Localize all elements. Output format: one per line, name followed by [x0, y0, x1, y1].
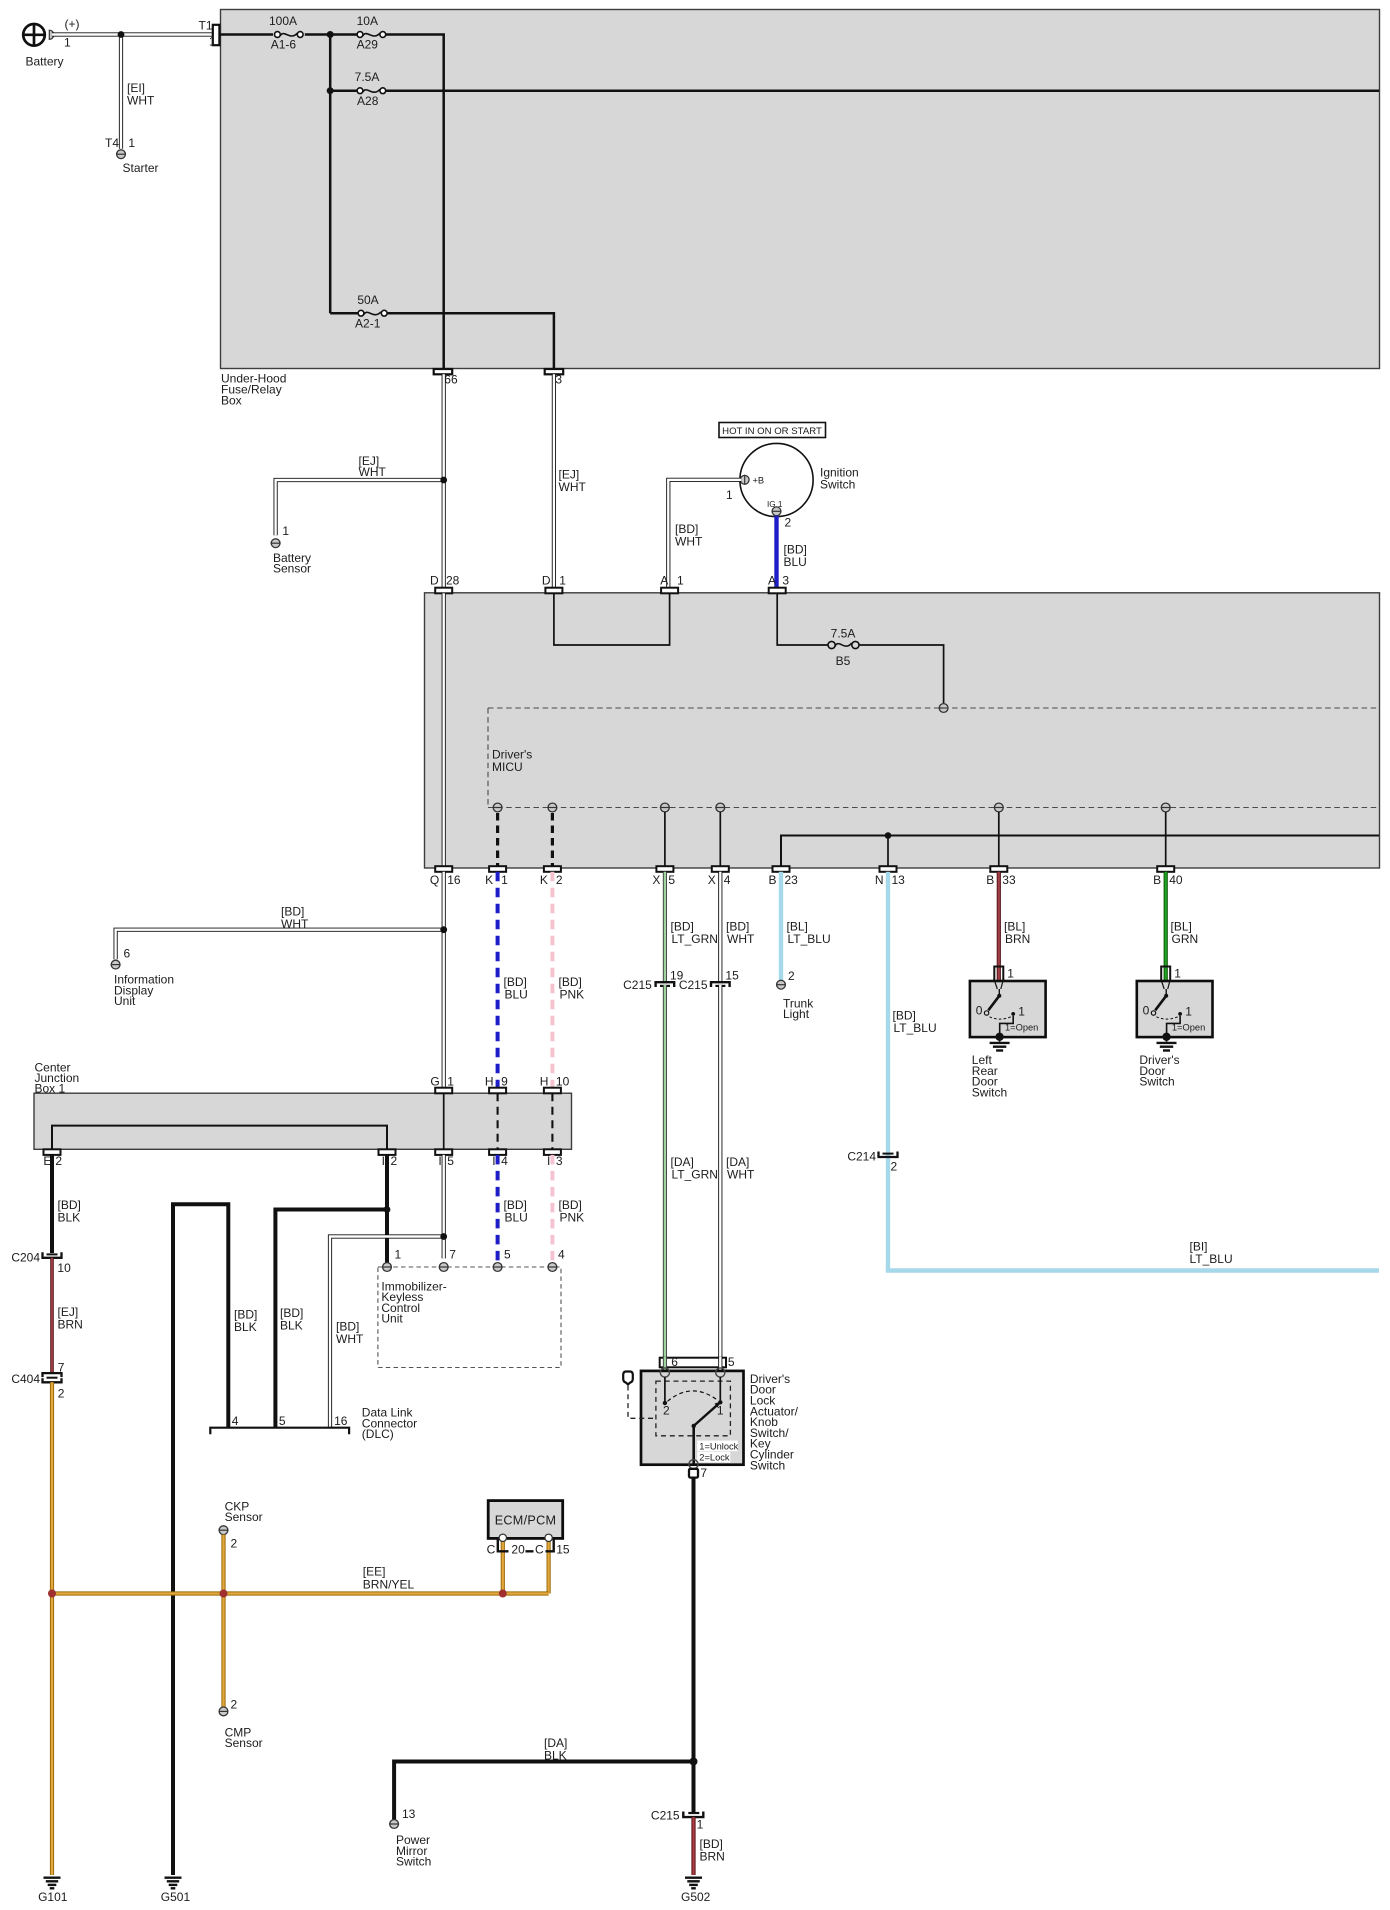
svg-text:ECM/PCM: ECM/PCM	[495, 1514, 557, 1528]
wire label [EI] WHT	[127, 81, 155, 107]
ground driver's door switch	[1139, 1037, 1179, 1089]
svg-text:I: I	[438, 1154, 441, 1168]
svg-text:BLK: BLK	[280, 1318, 303, 1332]
connector C214	[847, 1150, 897, 1174]
svg-text:LT_GRN: LT_GRN	[672, 932, 718, 946]
svg-text:2: 2	[55, 1154, 62, 1168]
fuse 10A A29	[357, 14, 386, 52]
wire branch to battery sensor	[276, 480, 444, 535]
wire H10 to I3 internal dashed	[551, 1093, 553, 1149]
svg-text:BLK: BLK	[58, 1210, 81, 1224]
terminal 66	[434, 369, 458, 386]
wire label [BD] WHT info	[281, 905, 309, 931]
svg-text:C404: C404	[11, 1372, 40, 1386]
svg-text:1: 1	[64, 36, 71, 50]
svg-text:Sensor: Sensor	[225, 1510, 263, 1524]
information display unit pin 6	[111, 947, 174, 1009]
svg-text:5: 5	[668, 873, 675, 887]
wire ignition +B to A1	[668, 480, 741, 588]
wire label [DA] LT_GRN	[671, 1155, 718, 1181]
junction orange left	[48, 1590, 56, 1598]
svg-text:10A: 10A	[357, 14, 378, 28]
svg-text:1: 1	[1018, 1005, 1025, 1019]
svg-text:BLU: BLU	[784, 555, 807, 569]
terminal 3	[545, 369, 564, 386]
svg-text:Switch: Switch	[396, 1855, 431, 1869]
connector C215 bottom	[651, 1809, 704, 1832]
svg-text:2: 2	[391, 1154, 398, 1168]
svg-text:40: 40	[1169, 873, 1183, 887]
svg-text:1: 1	[1174, 967, 1181, 981]
wire label [BL] GRN	[1171, 920, 1199, 946]
wire K1 internal dashed	[496, 813, 499, 866]
svg-text:BLK: BLK	[544, 1748, 567, 1762]
wire label [BL] BRN	[1004, 920, 1030, 946]
svg-text:WHT: WHT	[359, 465, 387, 479]
wire B5 to MICU pin	[859, 645, 944, 703]
junction I5 branch	[440, 1233, 447, 1240]
svg-text:LT_BLU: LT_BLU	[894, 1021, 937, 1035]
wire label [BD] BLU	[504, 975, 528, 1001]
svg-text:T1: T1	[198, 19, 212, 33]
driver's MICU box	[425, 593, 1380, 868]
svg-text:2: 2	[785, 516, 792, 530]
svg-text:7: 7	[58, 1361, 65, 1375]
wire C404 to G101 orange	[50, 1382, 54, 1875]
immobilizer pin 1	[382, 1247, 402, 1271]
junction N13	[885, 832, 892, 839]
svg-text:Switch: Switch	[1139, 1075, 1174, 1089]
svg-text:0: 0	[976, 1004, 983, 1018]
wire 10A to terminal 66	[386, 35, 444, 370]
svg-text:15: 15	[556, 1543, 570, 1557]
svg-text:C214: C214	[847, 1150, 876, 1164]
wire door lock 7 to C215 black	[692, 1477, 696, 1813]
svg-text:6: 6	[671, 1355, 678, 1369]
wire label [DA] BLK	[544, 1736, 567, 1762]
terminal H9	[485, 1074, 508, 1093]
wire CKP to CMP orange	[221, 1535, 225, 1707]
MICU pin X5	[660, 803, 670, 812]
wire ignition IG1 to A3 blue	[774, 516, 778, 588]
svg-text:3: 3	[555, 372, 562, 386]
svg-text:G: G	[430, 1074, 439, 1088]
svg-text:A: A	[660, 573, 668, 587]
terminal G1	[430, 1074, 454, 1093]
svg-text:Switch: Switch	[820, 477, 855, 491]
svg-text:A: A	[768, 573, 776, 587]
terminal H10	[540, 1074, 570, 1093]
wire label [BD] BLU A3	[784, 543, 807, 569]
wire branch to information display unit	[116, 930, 444, 960]
wire branch to power mirror switch	[394, 1762, 693, 1820]
svg-text:0: 0	[1143, 1004, 1150, 1018]
svg-text:100A: 100A	[269, 14, 297, 28]
ECM/PCM	[488, 1501, 563, 1539]
svg-text:1: 1	[395, 1247, 402, 1261]
svg-text:Switch: Switch	[750, 1458, 785, 1472]
ground left rear door switch	[972, 1037, 1010, 1099]
terminal K2	[540, 866, 563, 887]
fuse 100A A1-6	[269, 14, 303, 52]
wire B33 maroon	[997, 872, 1001, 988]
svg-text:16: 16	[447, 873, 461, 887]
svg-text:BLK: BLK	[234, 1320, 257, 1334]
svg-text:WHT: WHT	[675, 534, 703, 548]
door lock pin 5	[716, 1368, 725, 1377]
wire label [EJ] WHT battery sensor	[359, 454, 387, 479]
wire X5 internal	[664, 812, 666, 866]
door lock pin 7	[689, 1460, 708, 1480]
svg-text:5: 5	[279, 1414, 286, 1428]
junction DA BLK	[690, 1758, 698, 1766]
svg-text:C215: C215	[623, 978, 652, 992]
wire label [BD] WHT dlc16	[336, 1320, 364, 1346]
wire I5 to immobilizer pin 7	[442, 1155, 446, 1259]
terminal B23	[768, 866, 798, 887]
svg-text:BRN/YEL: BRN/YEL	[363, 1578, 415, 1592]
fuse 7.5A A28	[355, 70, 386, 108]
svg-text:1=Open: 1=Open	[1005, 1022, 1038, 1032]
immobilizer pin 4	[547, 1247, 565, 1271]
svg-text:5: 5	[504, 1247, 511, 1261]
wire label [BD] BLK dlc5	[234, 1308, 257, 1334]
wire D1 to A1 internal	[554, 593, 670, 645]
svg-text:B5: B5	[836, 654, 851, 668]
connector C204	[11, 1251, 71, 1275]
svg-text:1: 1	[559, 573, 566, 587]
wire junction to starter	[119, 35, 123, 149]
svg-text:I: I	[547, 1154, 550, 1168]
wire X5 C215 to door lock lt green	[663, 985, 667, 1373]
svg-text:+B: +B	[753, 476, 765, 486]
svg-text:16: 16	[334, 1414, 348, 1428]
ECM connector bracket	[487, 1540, 570, 1557]
door lock connector bar 6/5	[660, 1355, 735, 1372]
svg-text:9: 9	[501, 1074, 508, 1088]
svg-text:Unit: Unit	[114, 994, 136, 1008]
svg-text:PNK: PNK	[560, 987, 585, 1001]
svg-text:7: 7	[700, 1466, 707, 1480]
svg-text:Q: Q	[430, 873, 439, 887]
terminal I5	[435, 1149, 454, 1168]
wire B40 green	[1164, 872, 1168, 988]
svg-text:1: 1	[282, 524, 289, 538]
wire label [EJ] BRN	[58, 1305, 83, 1332]
terminal B33	[986, 866, 1016, 887]
wire label [BD] LT_GRN	[671, 920, 718, 946]
junction 7.5A row	[327, 87, 334, 94]
CKP sensor pin 2	[219, 1500, 263, 1551]
wire X4 C215 to door lock white	[718, 985, 722, 1373]
data link connector DLC	[210, 1406, 417, 1441]
svg-text:13: 13	[892, 873, 906, 887]
svg-text:1: 1	[677, 573, 684, 587]
connector T1	[198, 19, 219, 49]
terminal I3	[544, 1149, 563, 1168]
svg-text:WHT: WHT	[727, 932, 755, 946]
battery	[22, 17, 79, 69]
wire label [BD] BRN	[700, 1837, 725, 1863]
svg-text:Battery: Battery	[26, 55, 64, 69]
connector C404	[11, 1361, 64, 1401]
wire X5 to C215 lt green	[663, 872, 667, 984]
svg-text:WHT: WHT	[127, 93, 155, 107]
svg-text:A1-6: A1-6	[271, 38, 297, 52]
svg-text:23: 23	[785, 873, 799, 887]
svg-text:7: 7	[449, 1247, 456, 1261]
wire K2 internal dashed	[551, 813, 554, 866]
wire battery to T1	[52, 32, 213, 36]
power mirror switch pin 13	[389, 1807, 431, 1869]
svg-text:LT_BLU: LT_BLU	[1190, 1252, 1233, 1266]
trunk light pin 2	[776, 969, 814, 1021]
wire I4 to immobilizer pin 5 blue dashed	[496, 1155, 500, 1263]
terminal I2	[379, 1149, 398, 1168]
terminal I4	[489, 1149, 508, 1168]
svg-text:Starter: Starter	[123, 161, 159, 175]
terminal D1	[542, 573, 566, 593]
svg-text:Light: Light	[783, 1007, 810, 1021]
wire label [EE] BRN/YEL	[363, 1565, 415, 1592]
svg-text:BRN: BRN	[58, 1318, 83, 1332]
wire label [DA] WHT	[726, 1155, 755, 1181]
wire K2 to H10 pink dashed	[550, 872, 554, 1088]
junction A row	[327, 31, 334, 38]
terminal A3	[768, 573, 789, 593]
wire label [EJ] WHT D1	[559, 468, 587, 494]
svg-text:H: H	[540, 1074, 549, 1088]
svg-text:13: 13	[402, 1807, 416, 1821]
wire 50A to terminal 3	[387, 313, 554, 369]
svg-text:28: 28	[446, 573, 460, 587]
svg-text:BRN: BRN	[1005, 932, 1030, 946]
wire E2 to C204 black	[50, 1155, 54, 1253]
svg-text:N: N	[875, 873, 884, 887]
svg-text:3: 3	[556, 1154, 563, 1168]
HOT IN ON OR START banner	[719, 423, 826, 438]
wire label [BD] LT_BLU	[893, 1009, 937, 1035]
svg-text:D: D	[542, 573, 551, 587]
wire label [BD] BLK E2	[58, 1198, 81, 1224]
ground G501	[161, 1878, 191, 1904]
svg-text:D: D	[430, 573, 439, 587]
wire 3 to D1	[552, 374, 556, 587]
wire label [BL] LT_BLU	[787, 920, 831, 946]
svg-text:C215: C215	[651, 1809, 680, 1823]
svg-text:2=Lock: 2=Lock	[699, 1453, 730, 1463]
svg-text:1: 1	[501, 873, 508, 887]
wire internal bus B23/N13	[781, 836, 1379, 867]
svg-text:K: K	[485, 873, 493, 887]
wire B23 to trunk light lt blue	[779, 872, 783, 981]
immobilizer pin 5	[493, 1247, 511, 1271]
wire B33 internal	[998, 812, 1000, 866]
junction battery sensor branch	[440, 477, 447, 484]
ground G101	[38, 1878, 68, 1904]
svg-text:2: 2	[788, 969, 795, 983]
svg-text:G501: G501	[161, 1890, 191, 1904]
svg-text:A28: A28	[357, 94, 379, 108]
driver's door lock actuator box	[641, 1371, 799, 1472]
svg-text:6: 6	[124, 947, 131, 961]
junction orange C20	[499, 1590, 507, 1598]
wire H9 to I4 internal dashed	[497, 1093, 499, 1149]
ground G502	[681, 1878, 711, 1904]
svg-text:3: 3	[782, 573, 789, 587]
svg-text:1=Unlock: 1=Unlock	[699, 1441, 738, 1451]
wire C204 to C404 maroon	[50, 1258, 54, 1373]
ECM pin C20	[499, 1534, 506, 1541]
connector C215 pin19	[623, 968, 684, 992]
wire label [BD] PNK lower	[559, 1198, 585, 1224]
svg-text:Switch: Switch	[972, 1085, 1007, 1099]
svg-text:1=Open: 1=Open	[1172, 1022, 1205, 1032]
svg-text:C: C	[487, 1543, 496, 1557]
wire C215 to G502 maroon	[691, 1817, 695, 1875]
svg-text:2: 2	[556, 873, 563, 887]
svg-text:10: 10	[556, 1074, 570, 1088]
svg-text:HOT IN ON OR START: HOT IN ON OR START	[722, 426, 822, 437]
svg-text:C204: C204	[11, 1251, 40, 1265]
svg-text:BLU: BLU	[505, 1210, 528, 1224]
terminal D28	[430, 573, 460, 593]
svg-text:5: 5	[728, 1355, 735, 1369]
svg-text:2: 2	[58, 1387, 65, 1401]
wire ECM C15 orange	[546, 1541, 550, 1594]
wire I2 to immobilizer pin 1 black	[385, 1155, 389, 1263]
wire T1 to fuse 100A	[220, 33, 273, 36]
wire N13 internal	[887, 836, 889, 867]
junction orange CKP	[220, 1590, 228, 1598]
wire E2 to I2 internal	[52, 1126, 387, 1150]
wire junction to 50A fuse	[330, 312, 358, 315]
MICU pin K1	[493, 803, 503, 812]
svg-text:2: 2	[663, 1403, 670, 1417]
svg-text:C: C	[535, 1543, 544, 1557]
svg-text:I: I	[382, 1154, 385, 1168]
svg-text:Box 1: Box 1	[35, 1081, 66, 1095]
svg-text:1: 1	[1185, 1005, 1192, 1019]
left rear door switch	[970, 967, 1046, 1042]
svg-text:7.5A: 7.5A	[831, 627, 856, 641]
svg-text:BLU: BLU	[505, 987, 528, 1001]
svg-text:X: X	[708, 873, 716, 887]
svg-text:Box: Box	[221, 393, 242, 407]
wire 66 to D28	[442, 374, 446, 587]
wire G1 to I5 internal	[443, 1093, 445, 1149]
svg-text:WHT: WHT	[336, 1332, 364, 1346]
door lock switch internals	[663, 1377, 739, 1465]
svg-text:Sensor: Sensor	[273, 562, 311, 576]
wire X4 to C215 white	[718, 872, 722, 984]
ECM pin C15	[545, 1534, 552, 1541]
wire label [BI] LT_BLU	[1190, 1240, 1233, 1266]
svg-text:1: 1	[726, 488, 733, 502]
svg-text:LT_BLU: LT_BLU	[788, 932, 831, 946]
svg-text:I: I	[492, 1154, 495, 1168]
MICU internal pin top	[939, 704, 949, 713]
wire Q16 to G1	[442, 872, 446, 1088]
MICU pin K2	[547, 803, 557, 812]
wire branch I2 to DLC 5	[275, 1210, 387, 1428]
wire junction down	[329, 35, 332, 314]
svg-text:A29: A29	[357, 38, 379, 52]
svg-text:2: 2	[891, 1159, 898, 1173]
svg-text:4: 4	[232, 1414, 239, 1428]
svg-text:Sensor: Sensor	[225, 1736, 263, 1750]
wire B40 internal	[1165, 812, 1167, 866]
terminal B40	[1153, 866, 1183, 887]
fuse 7.5A B5	[828, 627, 859, 669]
svg-text:H: H	[485, 1074, 494, 1088]
wire A3 to fuse B5	[777, 593, 828, 645]
svg-text:1: 1	[1007, 967, 1014, 981]
svg-text:[EE]: [EE]	[363, 1565, 386, 1579]
MICU pin X4	[715, 803, 725, 812]
svg-text:7.5A: 7.5A	[355, 70, 380, 84]
svg-text:Unit: Unit	[381, 1312, 403, 1326]
svg-text:WHT: WHT	[559, 480, 587, 494]
center junction box 1	[34, 1061, 572, 1150]
wire X4 internal	[719, 812, 721, 866]
terminal A1	[660, 573, 684, 593]
svg-text:A2-1: A2-1	[355, 317, 381, 331]
svg-text:BRN: BRN	[700, 1849, 725, 1863]
door lock internal dashed box	[656, 1381, 731, 1436]
wire fuse 100A to junction	[305, 33, 358, 36]
junction info display branch	[440, 926, 447, 933]
svg-text:1: 1	[447, 1074, 454, 1088]
svg-text:X: X	[652, 873, 660, 887]
svg-text:33: 33	[1002, 873, 1016, 887]
svg-text:G101: G101	[38, 1890, 68, 1904]
wire D28 to Q16 internal	[442, 593, 446, 866]
wire label [BD] WHT A1	[675, 522, 703, 548]
svg-text:66: 66	[444, 372, 458, 386]
wire [BI] LT_BLU horizontal	[886, 1268, 1379, 1272]
terminal X4	[708, 866, 731, 887]
junction battery/starter	[118, 31, 125, 38]
svg-text:B: B	[986, 873, 994, 887]
svg-text:10: 10	[57, 1261, 71, 1275]
svg-text:LT_GRN: LT_GRN	[672, 1167, 718, 1181]
wire K1 to H9 blue dashed	[496, 872, 500, 1088]
wire branch I5 to DLC 16	[330, 1237, 444, 1428]
wire DLC 4 to G501	[173, 1204, 228, 1875]
wire label [BD] BLK dlc4	[280, 1306, 303, 1332]
svg-text:WHT: WHT	[281, 917, 309, 931]
MICU dashed boundary	[488, 708, 1379, 808]
wire I3 to immobilizer pin 4 pink dashed	[550, 1155, 554, 1263]
svg-text:4: 4	[501, 1154, 508, 1168]
svg-text:B: B	[768, 873, 776, 887]
svg-text:1: 1	[209, 35, 216, 49]
CMP sensor pin 2	[219, 1698, 263, 1751]
junction I2 branch	[384, 1206, 391, 1213]
svg-text:2: 2	[231, 1698, 238, 1712]
svg-text:15: 15	[725, 968, 739, 982]
under-hood fuse/relay box	[221, 10, 1380, 408]
svg-text:1: 1	[697, 1818, 704, 1832]
key dashed link	[628, 1386, 656, 1419]
door lock pin 6	[660, 1368, 669, 1377]
wire orange bus horizontal	[52, 1591, 549, 1595]
svg-text:MICU: MICU	[492, 760, 523, 774]
svg-text:4: 4	[724, 873, 731, 887]
wire N13 lt blue long	[886, 872, 890, 1271]
terminal E2	[43, 1149, 62, 1168]
